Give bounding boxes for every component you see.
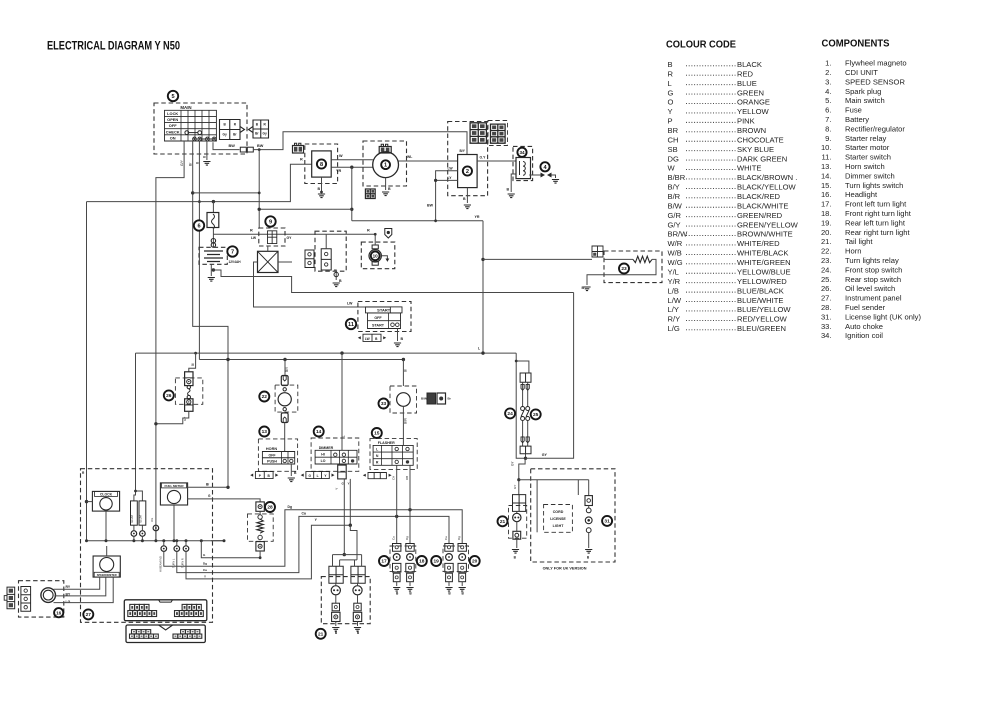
svg-text:L/Y: L/Y bbox=[668, 305, 679, 314]
svg-text:R: R bbox=[300, 158, 303, 162]
svg-text:W: W bbox=[339, 154, 343, 158]
junction turn relay feed bbox=[481, 258, 484, 261]
front left turn light 17 chain bbox=[396, 465, 398, 543]
wire stop switches feed branch bbox=[516, 361, 529, 373]
svg-text:33.: 33. bbox=[821, 322, 832, 331]
headlight bulb bbox=[41, 588, 56, 603]
wire R starter bus bbox=[213, 233, 375, 235]
svg-text:B: B bbox=[587, 556, 590, 560]
svg-text:Y/L: Y/L bbox=[668, 267, 679, 276]
dimmer output connector bbox=[338, 465, 347, 479]
main switch connector block bbox=[220, 120, 241, 140]
svg-text:COMPONENTS: COMPONENTS bbox=[822, 39, 890, 50]
svg-text:Starter motor: Starter motor bbox=[845, 143, 890, 152]
starter switch bottom connector bbox=[363, 334, 381, 341]
svg-text:Horn switch: Horn switch bbox=[845, 162, 885, 171]
ground UK license light bbox=[585, 550, 592, 554]
svg-text:Headlight: Headlight bbox=[845, 190, 878, 199]
main switch dashed enclosure bbox=[154, 103, 247, 154]
wire stop output to GY line bbox=[525, 454, 527, 459]
svg-text:21: 21 bbox=[318, 632, 324, 638]
wire relay connector to coil box bbox=[267, 246, 269, 251]
svg-text:B/W: B/W bbox=[668, 201, 683, 210]
bullet connector below fuse bbox=[211, 239, 215, 243]
main switch ON row contacts bbox=[193, 137, 216, 141]
svg-text:WHITE: WHITE bbox=[737, 164, 761, 173]
ground spark plug bbox=[552, 180, 559, 184]
junction YR drop bbox=[350, 166, 353, 169]
junction front right chain on Dg bus bbox=[408, 508, 411, 511]
svg-text:PINK: PINK bbox=[737, 117, 755, 126]
headlight designator bbox=[54, 608, 63, 617]
harness connector pair near battery bbox=[305, 250, 314, 268]
wire stop line down to tail light connector bbox=[519, 459, 525, 495]
svg-text:10: 10 bbox=[373, 253, 379, 258]
oil switch top connector bbox=[185, 372, 193, 386]
svg-text:Y: Y bbox=[324, 474, 327, 478]
ground ignition coil bbox=[508, 194, 515, 198]
wire bus riser to stop switches and GY node bbox=[516, 353, 525, 458]
starter circuit connector dashed enclosure bbox=[315, 231, 346, 271]
wire W rectifier to magneto bbox=[331, 159, 373, 161]
wire horn switch ground bbox=[290, 464, 292, 476]
svg-text:B: B bbox=[256, 123, 259, 127]
svg-text:BLACK/WHITE: BLACK/WHITE bbox=[737, 201, 788, 210]
junction stop output bbox=[524, 457, 527, 460]
svg-text:HI BEAM IND: HI BEAM IND bbox=[159, 556, 163, 572]
front right turn designator bbox=[417, 556, 427, 566]
panel bus outer stub bbox=[211, 540, 224, 542]
ground rectifier bbox=[318, 194, 325, 198]
svg-text:11: 11 bbox=[348, 322, 354, 328]
svg-text:B: B bbox=[448, 592, 451, 596]
svg-text:Y: Y bbox=[204, 574, 206, 578]
svg-text:WHITE/BLACK: WHITE/BLACK bbox=[737, 249, 788, 258]
cord license light dashed box bbox=[544, 505, 573, 533]
svg-text:CORD: CORD bbox=[553, 510, 564, 514]
starter motor output arrow bbox=[381, 256, 387, 260]
oil warning bulb bbox=[150, 517, 154, 522]
wire fuel meter B/Y feed bbox=[188, 486, 228, 488]
svg-text:33: 33 bbox=[381, 401, 387, 407]
svg-text:2.: 2. bbox=[825, 68, 831, 77]
svg-text:GREEN/YELLOW: GREEN/YELLOW bbox=[737, 220, 799, 229]
rectifier connector icon bbox=[293, 146, 304, 154]
svg-text:G/R: G/R bbox=[668, 211, 682, 220]
svg-text:B: B bbox=[335, 631, 338, 635]
svg-text:Br: Br bbox=[448, 397, 452, 401]
UK license light chain bbox=[588, 480, 590, 496]
svg-text:BROWN/WHITE: BROWN/WHITE bbox=[737, 230, 793, 239]
svg-text:YELLOW/RED: YELLOW/RED bbox=[737, 277, 787, 286]
svg-text:R: R bbox=[234, 123, 237, 127]
magneto top connector icon bbox=[379, 147, 391, 154]
svg-text:B: B bbox=[195, 161, 199, 164]
license area dashed enclosure UK bbox=[531, 469, 615, 562]
svg-text:23: 23 bbox=[621, 266, 627, 272]
wire YR rectifier to magneto bbox=[331, 166, 373, 168]
svg-text:Dg: Dg bbox=[405, 536, 409, 540]
wire fuel meter to panel bus bbox=[173, 505, 175, 541]
wire YR bus to turn relay column bbox=[352, 220, 483, 222]
svg-text:Rectifier/regulator: Rectifier/regulator bbox=[845, 124, 905, 133]
junction R bus at fuse feed bbox=[212, 200, 215, 203]
svg-text:Front right turn light: Front right turn light bbox=[845, 209, 912, 218]
svg-text:O.Y: O.Y bbox=[480, 156, 487, 160]
svg-text:6.: 6. bbox=[825, 106, 831, 115]
magneto bottom connector bbox=[365, 189, 375, 199]
svg-text:GY: GY bbox=[183, 417, 187, 421]
svg-text:LW: LW bbox=[448, 167, 454, 171]
junction B/Y at R bus bbox=[191, 191, 194, 194]
svg-text:G: G bbox=[203, 553, 206, 557]
rear left turn light 19 chain bbox=[448, 543, 450, 545]
svg-text:Ca: Ca bbox=[302, 512, 306, 516]
svg-text:LG: LG bbox=[66, 600, 71, 604]
wire clock feed stub bbox=[87, 501, 93, 503]
svg-text:B: B bbox=[318, 187, 321, 191]
svg-text:16: 16 bbox=[56, 610, 62, 615]
svg-text:ILLUM: ILLUM bbox=[139, 515, 143, 523]
START header label bbox=[366, 307, 403, 313]
svg-text:Rear stop switch: Rear stop switch bbox=[845, 275, 901, 284]
svg-text:ON: ON bbox=[170, 135, 176, 140]
horn designator bbox=[259, 392, 269, 402]
CDI unit 2 dashed enclosure bbox=[448, 122, 488, 196]
oil switch designator bbox=[164, 390, 174, 400]
svg-text:Dg: Dg bbox=[288, 505, 293, 509]
ground starter connector bbox=[333, 283, 340, 287]
svg-text:GY: GY bbox=[542, 453, 548, 457]
svg-text:20.: 20. bbox=[821, 228, 832, 237]
svg-text:CH: CH bbox=[392, 476, 396, 480]
svg-text:BR/W: BR/W bbox=[668, 230, 689, 239]
svg-text:R: R bbox=[367, 229, 370, 233]
svg-text:Turn lights relay: Turn lights relay bbox=[845, 256, 899, 265]
svg-text:26.: 26. bbox=[821, 284, 832, 293]
svg-text:R: R bbox=[263, 123, 266, 127]
tail light bulb left bbox=[331, 586, 340, 595]
svg-text:Ca: Ca bbox=[392, 536, 396, 540]
rear stop switch designator bbox=[531, 409, 541, 419]
dimmer bottom connector bbox=[306, 472, 329, 479]
wire R fuse feed bbox=[212, 202, 214, 213]
horn switch dashed enclosure bbox=[258, 439, 297, 471]
wire main switch ground stub bbox=[206, 141, 208, 160]
svg-text:GREEN: GREEN bbox=[737, 88, 764, 97]
horn switch bottom connector bbox=[255, 472, 273, 479]
junction front left chain on Ca bus bbox=[395, 515, 398, 518]
horn top connector bbox=[281, 376, 288, 386]
speedometer unit bbox=[93, 556, 120, 577]
fuel sender 28 designator bbox=[265, 502, 275, 512]
junction bus oil switch feed bbox=[194, 352, 197, 355]
wire turn L indicator out bbox=[177, 551, 207, 572]
svg-text:B/Y: B/Y bbox=[460, 149, 466, 153]
junction panel bus points bbox=[105, 539, 108, 542]
svg-text:14: 14 bbox=[316, 429, 322, 435]
starter relay connector bbox=[268, 231, 277, 244]
indicator labels bbox=[159, 556, 163, 572]
svg-text:17.: 17. bbox=[821, 200, 832, 209]
svg-text:BW: BW bbox=[229, 144, 236, 148]
wire starter switch ground bbox=[397, 329, 399, 342]
svg-text:Ca: Ca bbox=[203, 568, 207, 572]
svg-text:LOCK: LOCK bbox=[167, 111, 178, 116]
CDI designator bbox=[463, 166, 472, 175]
svg-text:Front left turn light: Front left turn light bbox=[845, 200, 907, 209]
rectifier body bbox=[312, 151, 332, 177]
wire headlight BY bbox=[54, 577, 105, 596]
turn relay designator bbox=[619, 264, 629, 274]
svg-text:G/Y: G/Y bbox=[180, 159, 184, 166]
horn pin bottom bbox=[283, 408, 286, 411]
svg-text:14.: 14. bbox=[821, 171, 832, 180]
svg-text:B/W: B/W bbox=[404, 418, 408, 424]
svg-text:24: 24 bbox=[507, 411, 513, 417]
svg-text:W: W bbox=[668, 164, 676, 173]
junction lower bus choke feed bbox=[402, 358, 405, 361]
svg-text:YR: YR bbox=[336, 169, 342, 173]
clock unit bbox=[92, 491, 119, 511]
svg-text:34.: 34. bbox=[821, 331, 832, 340]
wire headlight RY bbox=[54, 577, 100, 589]
svg-text:R: R bbox=[250, 229, 253, 233]
Dg label rear right chain bbox=[457, 536, 461, 540]
wire illum second bulb branch bbox=[136, 491, 143, 501]
svg-text:Y/R: Y/R bbox=[668, 277, 681, 286]
headlight bulb connector bbox=[21, 587, 31, 612]
svg-text:B: B bbox=[267, 474, 270, 478]
svg-text:6: 6 bbox=[197, 224, 200, 230]
svg-text:BR: BR bbox=[668, 126, 679, 135]
starter motor designator bbox=[371, 251, 380, 260]
svg-text:34: 34 bbox=[519, 150, 525, 155]
horn switch contacts bbox=[283, 459, 286, 462]
svg-text:R/Y: R/Y bbox=[668, 315, 681, 324]
svg-text:BLUE: BLUE bbox=[737, 79, 757, 88]
wire GY stop line to frame bus bbox=[526, 293, 574, 459]
fuel sender resistor bbox=[257, 519, 263, 533]
wire YR down right side bbox=[482, 221, 484, 353]
svg-text:R: R bbox=[668, 69, 674, 78]
license light bulb bbox=[516, 511, 518, 513]
CDI top connector block A bbox=[470, 123, 486, 143]
auto choke body bbox=[397, 393, 411, 407]
wire fuel meter to fuel sender bbox=[188, 499, 261, 502]
ground CDI bbox=[464, 205, 471, 209]
svg-text:Instrument panel: Instrument panel bbox=[845, 294, 902, 303]
wire dimmer Y output to Y bus junction bbox=[349, 479, 351, 525]
svg-text:1: 1 bbox=[384, 163, 387, 169]
svg-text:LW: LW bbox=[365, 337, 370, 341]
rear right turn designator bbox=[470, 556, 480, 566]
wire tail feed from bus bbox=[201, 541, 207, 558]
starter relay dashed enclosure bbox=[259, 228, 285, 246]
dimmer switch 14 designator bbox=[314, 427, 324, 437]
horn body bbox=[278, 393, 291, 406]
wire LW relay to starter button bbox=[254, 262, 391, 313]
main switch column wire labels bbox=[180, 159, 184, 166]
svg-text:G: G bbox=[668, 88, 674, 97]
svg-text:P: P bbox=[668, 117, 673, 126]
svg-text:LIGHT: LIGHT bbox=[553, 524, 565, 528]
svg-text:13: 13 bbox=[262, 429, 268, 435]
indicator bulbs below bus bbox=[161, 546, 167, 552]
license light lower connector bbox=[516, 522, 518, 532]
wire bus drop to panel illumination bbox=[134, 353, 136, 501]
svg-text:BROWN: BROWN bbox=[737, 126, 766, 135]
auto choke designator bbox=[379, 399, 389, 409]
connector pin icon on motor feed bbox=[385, 229, 392, 239]
CDI top connector block B bbox=[491, 124, 506, 143]
svg-text:YELLOW: YELLOW bbox=[737, 107, 769, 116]
wire OY CDI to ignition coil bbox=[477, 160, 516, 162]
svg-text:W/G: W/G bbox=[668, 258, 683, 267]
fuel sender bottom connector bbox=[256, 542, 264, 551]
wire R bus from main switch to rectifier bbox=[87, 164, 312, 201]
junction battery positive frame bus bbox=[212, 268, 215, 271]
svg-text:Spark plug: Spark plug bbox=[845, 87, 881, 96]
svg-text:B: B bbox=[507, 188, 510, 192]
svg-text:21.: 21. bbox=[821, 237, 832, 246]
svg-text:Gy: Gy bbox=[262, 132, 266, 136]
svg-text:B/Y: B/Y bbox=[285, 366, 289, 372]
svg-text:BLUE/YELLOW: BLUE/YELLOW bbox=[737, 305, 791, 314]
wire B/Y main switch down to stop/meter circuits bbox=[193, 141, 228, 487]
svg-text:16.: 16. bbox=[821, 190, 832, 199]
svg-text:Br: Br bbox=[233, 133, 237, 137]
ground turn relay bbox=[583, 287, 590, 291]
svg-text:19.: 19. bbox=[821, 218, 832, 227]
fuel meter unit bbox=[160, 483, 187, 505]
dimmer switch table bbox=[315, 450, 357, 464]
svg-text:R: R bbox=[376, 461, 379, 465]
oil switch bottom connector bbox=[185, 399, 193, 412]
svg-text:CH: CH bbox=[668, 135, 679, 144]
svg-text:Rear right turn light: Rear right turn light bbox=[845, 228, 910, 237]
Ca label rear left chain bbox=[444, 536, 448, 540]
svg-text:5: 5 bbox=[171, 94, 174, 100]
svg-text:27.: 27. bbox=[821, 294, 832, 303]
front left turn designator bbox=[379, 556, 389, 566]
svg-text:W/R: W/R bbox=[668, 239, 683, 248]
svg-text:B: B bbox=[294, 471, 297, 475]
svg-text:Turn lights switch: Turn lights switch bbox=[845, 181, 903, 190]
wire YR down to YR bus bbox=[351, 167, 353, 221]
wire connector to ground bullet bbox=[334, 270, 336, 280]
svg-text:Ca: Ca bbox=[444, 536, 448, 540]
svg-text:B: B bbox=[223, 123, 226, 127]
fuel sender bullet top bbox=[258, 515, 262, 519]
svg-text:28.: 28. bbox=[821, 303, 832, 312]
wire turn R indicator out bbox=[186, 551, 207, 579]
svg-text:B/: B/ bbox=[189, 163, 193, 166]
svg-text:RED: RED bbox=[737, 69, 754, 78]
svg-text:20: 20 bbox=[472, 559, 478, 565]
wire oil switch feed bbox=[189, 353, 196, 372]
svg-text:B/: B/ bbox=[206, 483, 209, 487]
svg-text:FLASHER: FLASHER bbox=[378, 441, 395, 445]
ground tail light left bbox=[332, 628, 339, 632]
headlight dashed enclosure bbox=[19, 581, 64, 617]
svg-text:Ignition coil: Ignition coil bbox=[845, 331, 883, 340]
svg-text:CHOCOLATE: CHOCOLATE bbox=[737, 135, 784, 144]
svg-text:12V4AH: 12V4AH bbox=[229, 260, 242, 264]
svg-text:21: 21 bbox=[500, 519, 506, 525]
svg-text:P: P bbox=[259, 474, 262, 478]
tail light right connector bbox=[351, 566, 365, 583]
wire battery to frame bus bbox=[213, 270, 573, 293]
svg-text:LICENSE: LICENSE bbox=[550, 517, 566, 521]
wire LW CDI to YR bus bbox=[436, 171, 458, 221]
CDI body bbox=[458, 155, 478, 188]
wire hi beam indicator out bbox=[164, 551, 207, 566]
svg-text:24.: 24. bbox=[821, 265, 832, 274]
wire fuel sender line from panel bbox=[207, 557, 260, 559]
license light chain dashed enclosure bbox=[509, 506, 527, 539]
svg-text:OIL: OIL bbox=[150, 517, 154, 522]
svg-text:18.: 18. bbox=[821, 209, 832, 218]
svg-text:YELLOW/BLUE: YELLOW/BLUE bbox=[737, 267, 791, 276]
junction GY-YR node bbox=[350, 208, 353, 211]
wire choke to flasher switch bbox=[402, 406, 404, 445]
fuel sender bullet bottom bbox=[258, 535, 262, 539]
svg-text:3.: 3. bbox=[825, 77, 831, 86]
svg-text:SPEED SENSOR: SPEED SENSOR bbox=[845, 77, 905, 86]
fuse designator bbox=[194, 220, 204, 230]
svg-text:WHITE/RED: WHITE/RED bbox=[737, 239, 780, 248]
wire speedometer to bus bbox=[106, 546, 108, 556]
junction bus dimmer feed bbox=[340, 351, 343, 354]
svg-text:CLOCK: CLOCK bbox=[100, 493, 113, 497]
wire coil to spark plug bbox=[529, 174, 541, 176]
tail light dashed enclosure bbox=[321, 577, 370, 624]
stop switches bottom connector bbox=[520, 446, 531, 454]
svg-text:B/: B/ bbox=[404, 369, 408, 372]
svg-text:WHITE/GREEN: WHITE/GREEN bbox=[737, 258, 791, 267]
junction BW relay riser bbox=[258, 148, 261, 151]
starter motor dashed enclosure bbox=[361, 242, 395, 269]
ground magneto bbox=[382, 192, 389, 196]
svg-text:B: B bbox=[388, 187, 391, 191]
starter switch table bbox=[368, 313, 401, 329]
wire Y bus from panel to dimmer junction bbox=[207, 525, 350, 579]
tail light left connector bbox=[329, 566, 343, 583]
fuel sender dashed enclosure bbox=[248, 514, 274, 541]
svg-text:Auto choke: Auto choke bbox=[845, 322, 883, 331]
svg-text:MAIN: MAIN bbox=[180, 105, 191, 110]
rear right turn light 20 chain bbox=[461, 543, 463, 545]
svg-text:CHECK: CHECK bbox=[166, 129, 180, 134]
svg-text:B/BR: B/BR bbox=[668, 173, 686, 182]
instrument panel connector strip 2 bbox=[126, 625, 205, 643]
wire B main switch down to accessory bus bbox=[198, 141, 200, 360]
svg-text:22: 22 bbox=[262, 394, 268, 400]
battery 7 dashed enclosure bbox=[199, 247, 227, 264]
front right turn light 18 chain bbox=[409, 465, 411, 543]
svg-text:Tail light: Tail light bbox=[845, 237, 873, 246]
svg-text:B/: B/ bbox=[191, 363, 195, 366]
svg-text:DG: DG bbox=[668, 154, 679, 163]
svg-text:19: 19 bbox=[434, 559, 440, 565]
wire fuse to battery bbox=[212, 228, 214, 248]
svg-text:HI: HI bbox=[321, 453, 325, 457]
svg-text:L: L bbox=[668, 79, 672, 88]
CDI top connector block B dashed bbox=[488, 121, 508, 146]
battery designator bbox=[227, 246, 237, 256]
svg-text:10.: 10. bbox=[821, 143, 832, 152]
